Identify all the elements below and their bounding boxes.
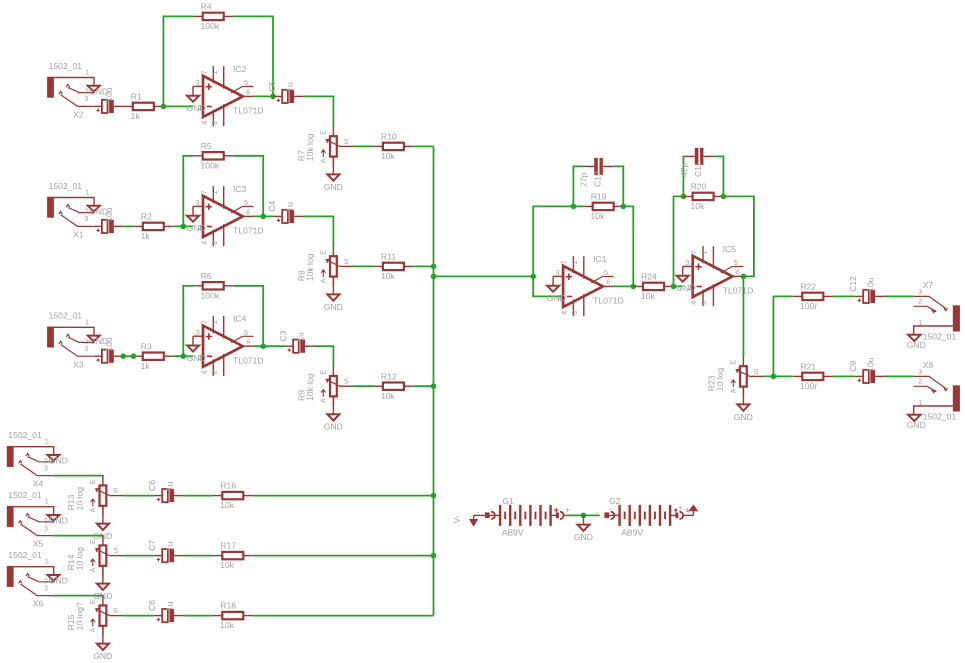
svg-text:X1: X1 [73,230,84,240]
wire [233,16,273,96]
wire [614,166,624,206]
connector X8 [907,360,960,430]
node out1 [270,94,276,100]
node ic5in [671,284,677,290]
ground [324,294,343,311]
wire [613,285,633,287]
node in3 [181,353,187,359]
wire [53,595,103,598]
resistor R24 [634,272,674,302]
node in2 [181,224,187,230]
resistor R19 [583,192,623,222]
node sum [530,274,536,280]
wire bus [433,146,435,615]
svg-text:C5: C5 [267,81,277,92]
svg-text:X3: X3 [73,359,84,369]
wire [723,196,754,276]
svg-text:C3: C3 [278,330,288,341]
svg-text:27p: 27p [578,172,588,187]
wire [315,346,334,367]
node ic1out [631,284,637,290]
wire [123,355,133,357]
svg-text:10 log: 10 log [75,487,85,511]
wire [764,375,793,377]
wire [253,555,434,557]
junction gnd0 [581,513,587,519]
wire [474,514,485,516]
svg-text:10k: 10k [381,391,396,401]
junction [571,204,577,210]
svg-text:10k: 10k [220,620,235,630]
resistor R3 [133,341,173,371]
connector X5 [7,490,68,549]
resistor R18 [213,601,253,631]
svg-text:IC2: IC2 [233,64,247,74]
wire [183,156,193,227]
svg-text:C12: C12 [848,276,858,292]
wire [583,515,585,524]
wire [163,105,193,107]
svg-text:X6: X6 [33,599,44,609]
node out3 [260,343,266,349]
connector X7 [907,280,960,350]
svg-text:TL071D: TL071D [723,286,754,296]
potentiometer R8 [296,246,353,286]
wire [742,276,744,356]
resistor R21 [793,362,833,392]
resistor R4 [193,2,233,32]
wire [714,156,723,196]
capacitor C5 [267,81,304,103]
resistor R11 [373,252,413,282]
wire [354,265,374,267]
capacitor C9 [848,357,885,383]
capacitor C2 [93,207,123,233]
svg-text:C4: C4 [267,201,277,212]
wire [102,566,104,584]
svg-text:IC3: IC3 [233,184,247,194]
ground [93,584,112,601]
potentiometer R15 [66,596,123,636]
svg-text:100k: 100k [201,160,220,170]
wire [304,216,334,247]
svg-text:100r: 100r [800,301,817,311]
wire [332,277,334,295]
wire [885,375,914,377]
supply V+ [678,502,698,516]
resistor R16 [213,481,253,511]
capacitor C3 [93,337,123,363]
resistor R20 [683,182,723,212]
svg-text:R22: R22 [800,282,816,292]
wire [253,95,274,97]
battery G1 [476,496,570,537]
svg-text:R18: R18 [220,601,236,611]
wire [123,225,133,227]
wire [533,276,563,296]
resistor R10 [373,132,413,162]
wire [742,275,745,277]
capacitor C7 [147,540,184,562]
svg-text:R4: R4 [201,2,212,12]
capacitor C8 [147,600,184,622]
svg-text:10k: 10k [641,291,656,301]
svg-text:10k: 10k [381,151,396,161]
capacitor C3 [278,330,315,352]
junction [431,274,437,280]
ground [93,524,112,541]
svg-text:G2: G2 [609,496,621,506]
node ic5out [741,274,747,280]
wire [53,475,103,478]
junction [431,383,437,389]
potentiometer R13 [66,476,123,516]
svg-text:C9: C9 [848,361,858,372]
wire [123,495,154,497]
wire [413,145,433,147]
svg-text:C8: C8 [147,600,157,611]
wire [623,206,633,286]
wire [173,225,193,227]
wire [674,285,683,287]
svg-text:100k: 100k [201,21,220,31]
potentiometer R7 [296,126,353,166]
ground [324,174,343,191]
wire [434,275,534,277]
svg-text:R12: R12 [381,371,397,381]
wire [183,286,193,356]
junction [431,264,437,270]
svg-text:C6: C6 [147,480,157,491]
resistor R22 [793,282,833,312]
svg-text:47p: 47p [679,162,689,177]
svg-text:10k log: 10k log [305,373,315,401]
svg-text:10 log?: 10 log? [75,602,85,630]
svg-text:IC5: IC5 [723,244,737,254]
svg-text:100r: 100r [800,381,817,391]
op-amp IC2 [187,64,264,126]
svg-text:C11: C11 [693,162,703,177]
svg-text:TL071D: TL071D [233,106,264,116]
op-amp IC1 [547,254,624,316]
wire [885,295,914,297]
svg-text:X8: X8 [923,360,934,370]
svg-text:10 log: 10 log [715,368,725,392]
wire [253,345,285,347]
svg-text:10k: 10k [690,201,705,211]
svg-text:1u: 1u [285,82,295,92]
junction [681,194,687,200]
wire [833,375,855,377]
svg-text:10u: 10u [104,207,114,222]
wire [354,385,374,387]
wire [742,387,744,405]
svg-text:10u: 10u [104,337,114,352]
wire [533,206,583,276]
svg-text:+: + [686,506,691,516]
op-amp IC5 [676,244,753,306]
capacitor C6 [147,480,184,502]
potentiometer R14 [66,536,123,576]
connector X1 [47,181,108,240]
svg-text:10k log: 10k log [305,133,315,161]
resistor R2 [133,212,173,242]
wire [173,355,193,357]
wire [123,555,154,557]
svg-text:R10: R10 [381,132,397,142]
svg-text:10k: 10k [381,271,396,281]
svg-text:R3: R3 [141,341,152,351]
resistor R6 [193,271,233,301]
wire [686,514,694,516]
op-amp IC3 [187,184,264,246]
connector X4 [7,430,68,489]
svg-text:R19: R19 [591,192,607,202]
svg-text:IC1: IC1 [593,254,607,264]
svg-text:R11: R11 [381,252,396,262]
capacitor C10 [578,158,613,187]
svg-text:R5: R5 [201,141,212,151]
svg-text:10u: 10u [866,277,876,292]
svg-text:AB9V: AB9V [621,527,643,537]
wire [332,396,334,414]
wire [163,16,193,106]
svg-text:100k: 100k [201,290,220,300]
wire [833,295,855,297]
op-amp IC4 [187,314,264,376]
svg-text:10u: 10u [104,87,114,102]
svg-text:R17: R17 [220,541,236,551]
svg-text:R24: R24 [641,272,657,282]
wire [773,296,792,376]
wire [413,385,433,387]
svg-text:C10: C10 [592,171,602,187]
wire [566,514,600,516]
ground [734,404,753,421]
potentiometer R9 [296,366,353,406]
potentiometer R23 [706,356,763,396]
svg-text:+: + [678,502,683,512]
wire [253,215,274,217]
svg-text:TL071D: TL071D [233,226,264,236]
junction [621,204,627,210]
node in1 [161,104,167,110]
wire [413,265,433,267]
svg-text:TL071D: TL071D [233,355,264,365]
wire [304,96,334,127]
capacitor C11 [679,148,714,177]
wire [253,495,434,497]
wire [233,286,263,346]
wire [573,166,583,206]
wire [682,156,685,196]
wire [123,615,154,617]
svg-text:X5: X5 [33,539,44,549]
capacitor C4 [267,201,304,223]
ground [574,525,593,542]
svg-text:R20: R20 [691,182,707,192]
wire [53,535,103,538]
wire [184,495,213,497]
svg-text:R1: R1 [131,92,142,102]
battery G2 [596,496,690,537]
junction [120,353,126,359]
svg-text:R2: R2 [141,212,152,222]
svg-text:R16: R16 [220,481,236,491]
wire [674,196,684,286]
svg-text:1u: 1u [285,202,295,212]
junction [721,194,727,200]
resistor R12 [373,371,413,401]
svg-text:C7: C7 [147,540,157,551]
connector X6 [7,550,68,609]
junction [131,353,137,359]
resistor R17 [213,541,253,571]
svg-text:10 log: 10 log [75,547,85,571]
wire [233,156,263,217]
svg-text:10k: 10k [591,211,606,221]
wire [354,145,374,147]
svg-text:R21: R21 [800,362,816,372]
svg-text:TL071D: TL071D [593,296,624,306]
connector X2 [47,61,108,120]
svg-text:1k: 1k [131,111,141,121]
resistor R5 [193,141,233,171]
svg-text:10k: 10k [220,500,235,510]
node outsplit [771,374,777,380]
wire [184,555,213,557]
svg-text:10u: 10u [866,357,876,372]
svg-text:1u: 1u [165,601,175,611]
ground [324,414,343,431]
wire [184,615,213,617]
wire [332,157,334,175]
capacitor C1 [93,87,123,113]
svg-text:1u: 1u [165,541,175,551]
svg-text:IC4: IC4 [233,314,247,324]
svg-text:1u: 1u [295,332,305,342]
svg-text:R6: R6 [201,271,212,281]
svg-text:1k: 1k [141,231,151,241]
svg-text:X4: X4 [33,479,44,489]
capacitor C12 [848,276,885,303]
wire [102,506,104,524]
ground [93,644,112,661]
svg-text:X7: X7 [923,280,934,290]
wire [102,626,104,644]
svg-text:G1: G1 [503,496,515,506]
svg-text:10k log: 10k log [305,253,315,281]
node out2 [260,214,266,220]
junction [431,553,437,559]
resistor R1 [123,92,163,122]
svg-text:X2: X2 [73,110,84,120]
junction [431,493,437,499]
wire [253,615,434,617]
supply V- [452,515,478,525]
svg-text:1u: 1u [165,481,175,491]
svg-text:10k: 10k [220,560,235,570]
svg-text:1k: 1k [141,361,151,371]
connector X3 [47,311,108,370]
svg-text:AB9V: AB9V [502,527,524,537]
